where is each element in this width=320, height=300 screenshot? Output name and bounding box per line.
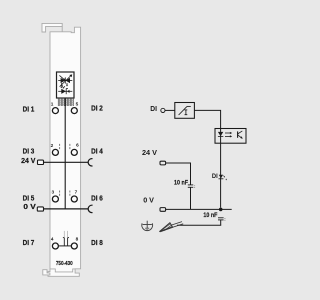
svg-text:DI 8: DI 8 (91, 238, 103, 247)
svg-text:DI: DI (150, 104, 157, 113)
svg-text:4: 4 (51, 236, 54, 241)
svg-text:750-430: 750-430 (56, 261, 73, 267)
svg-text:10 nF: 10 nF (203, 212, 217, 219)
svg-text:7: 7 (75, 190, 78, 195)
svg-text:DI 3: DI 3 (23, 147, 35, 156)
svg-text:DI: DI (212, 173, 218, 180)
svg-text:DI 2: DI 2 (91, 104, 103, 113)
svg-text:24 V: 24 V (142, 148, 158, 157)
svg-text:0 V: 0 V (23, 202, 36, 211)
svg-text:10 nF: 10 nF (174, 180, 188, 187)
svg-text:DI 5: DI 5 (23, 194, 35, 203)
svg-text:DI 7: DI 7 (23, 238, 35, 247)
svg-text:DI 1: DI 1 (23, 104, 35, 113)
svg-text:DI 6: DI 6 (91, 193, 103, 202)
svg-text:1: 1 (51, 102, 54, 107)
svg-text:2: 2 (51, 143, 54, 148)
svg-text:6: 6 (76, 142, 79, 147)
svg-text:24 V: 24 V (21, 156, 36, 165)
svg-text:0 V: 0 V (143, 196, 155, 205)
svg-text:8: 8 (76, 236, 79, 241)
svg-text:5: 5 (76, 102, 79, 107)
svg-text:DI 4: DI 4 (91, 146, 103, 155)
svg-text:3: 3 (51, 190, 54, 195)
